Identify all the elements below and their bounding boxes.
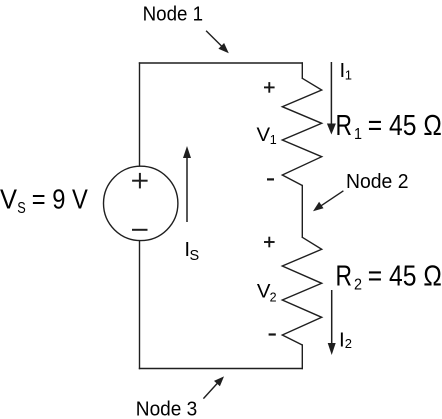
wire left lower (source bottom lead) [139, 241, 141, 369]
voltage source VS (circle symbol) [104, 166, 178, 240]
wire left upper (source top lead) [139, 63, 141, 166]
svg-text:1: 1 [270, 133, 277, 147]
svg-text:Node 3: Node 3 [136, 398, 198, 419]
polarity plus of V2 [264, 237, 275, 248]
polarity plus of V1 [264, 82, 275, 93]
svg-text:Node 2: Node 2 [346, 170, 409, 193]
svg-text:S: S [17, 200, 26, 217]
current arrow IS (upward) [183, 146, 191, 222]
svg-text:= 45 Ω: = 45 Ω [368, 110, 442, 142]
label IS [184, 238, 199, 264]
pointer arrow to node 1 [206, 31, 229, 54]
resistor R2 (zigzag) [282, 237, 321, 345]
minus terminal mark inside VS [132, 229, 148, 231]
svg-text:= 45 Ω: = 45 Ω [368, 260, 442, 292]
wire top (Node 1 net) [140, 62, 303, 64]
svg-text:1: 1 [354, 126, 362, 143]
svg-text:S: S [190, 248, 200, 264]
value label R1 = 45 ohm [336, 110, 442, 143]
svg-text:R: R [336, 110, 353, 142]
svg-text:R: R [336, 260, 353, 292]
svg-text:2: 2 [354, 277, 362, 294]
pointer arrow to node 2 [313, 191, 343, 211]
svg-text:V: V [0, 184, 17, 215]
plus terminal mark inside VS [132, 173, 148, 189]
svg-text:2: 2 [270, 291, 277, 305]
current arrow I2 (downward through R2) [328, 290, 336, 355]
svg-text:1: 1 [345, 68, 352, 83]
resistor R1 (zigzag) [282, 78, 321, 185]
label V1 [257, 125, 277, 147]
svg-text:2: 2 [345, 336, 352, 351]
svg-text:V: V [257, 125, 271, 146]
wire right upper (top lead of R1) [301, 63, 303, 78]
wire right lower (bottom lead of R2) [301, 345, 303, 369]
svg-text:= 9 V: = 9 V [32, 184, 88, 215]
value label VS = 9 V [0, 184, 88, 217]
value label R2 = 45 ohm [336, 260, 442, 293]
wire middle right (Node 2 net between R1 and R2) [301, 186, 303, 238]
polarity minus of V1 [267, 178, 274, 180]
wire bottom (Node 3 net) [140, 368, 303, 370]
pointer arrow to node 3 [203, 376, 224, 398]
polarity minus of V2 [269, 333, 276, 335]
label I2 [339, 329, 352, 352]
label I1 [340, 59, 353, 83]
label V2 [257, 281, 277, 304]
current arrow I1 (downward through R1) [327, 62, 336, 135]
svg-text:Node 1: Node 1 [143, 3, 204, 26]
